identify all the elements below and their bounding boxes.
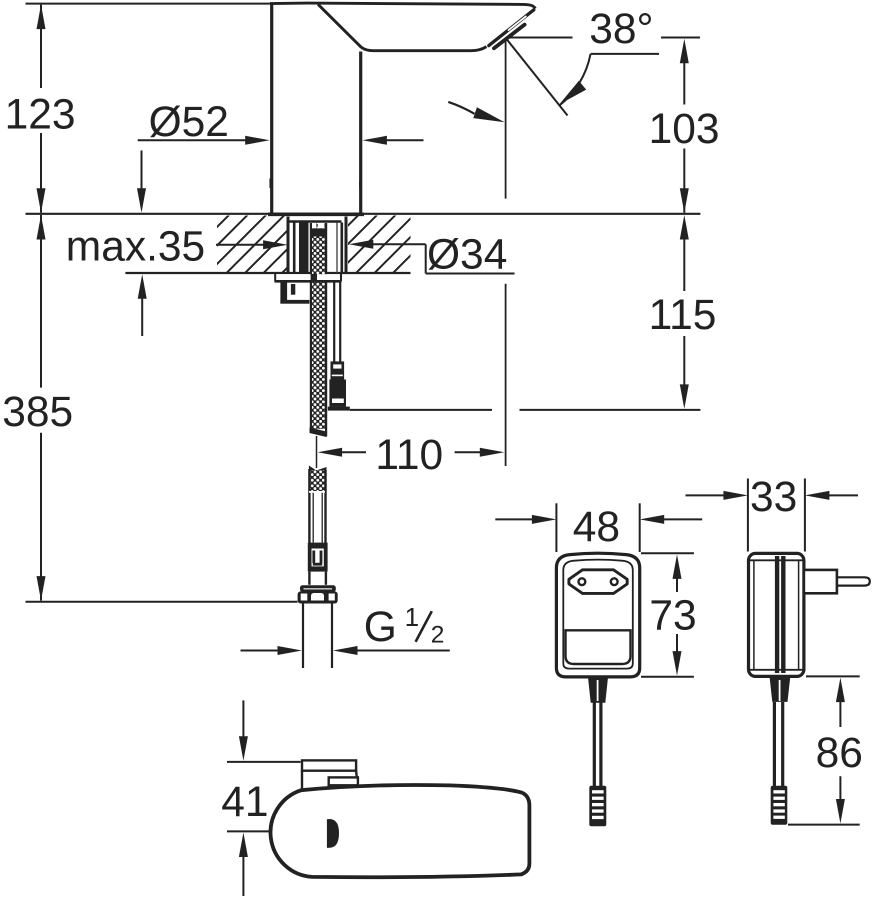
dim 41 bbox=[242, 700, 244, 738]
power supply side view bbox=[749, 553, 804, 676]
hose nut bbox=[300, 585, 336, 592]
svg-text:73: 73 bbox=[649, 593, 696, 640]
cable connector plug bbox=[331, 361, 345, 379]
svg-text:38°: 38° bbox=[589, 6, 653, 53]
dim 73 bbox=[641, 552, 694, 554]
dim 33 bbox=[747, 479, 749, 552]
dim 103 bbox=[683, 62, 685, 105]
power supply front view bbox=[556, 553, 639, 677]
euro plug block bbox=[804, 570, 837, 593]
svg-text:41: 41 bbox=[221, 779, 268, 826]
faucet body outline bbox=[270, 3, 535, 213]
top extension line (123 reference) bbox=[26, 3, 273, 5]
mounting shank through counter bbox=[287, 217, 290, 273]
counter/worktop hatched section bbox=[217, 216, 287, 273]
cable front bbox=[593, 703, 596, 787]
svg-text:103: 103 bbox=[649, 106, 720, 153]
braided hose lower segment bbox=[309, 466, 327, 474]
svg-text:33: 33 bbox=[750, 474, 797, 521]
svg-text:2: 2 bbox=[431, 622, 445, 649]
svg-text:1: 1 bbox=[405, 602, 419, 632]
hose centerline between breaks bbox=[316, 436, 318, 468]
cable gland side bbox=[770, 677, 791, 702]
38deg arc with arrow bbox=[559, 54, 590, 106]
O52 right-side arrow bbox=[362, 136, 387, 145]
water stream axis line bbox=[505, 39, 507, 199]
115 extension line bbox=[350, 409, 492, 411]
dim O34 bbox=[349, 240, 374, 249]
svg-text:115: 115 bbox=[649, 292, 717, 339]
cable connector front bbox=[589, 786, 606, 826]
check valve bbox=[308, 543, 328, 549]
hose break (upper end) bbox=[310, 428, 327, 438]
dim 123 bbox=[40, 5, 42, 88]
385 extension line bbox=[26, 601, 298, 603]
flow direction curved arrow bbox=[448, 102, 474, 114]
faucet base thick segment bbox=[268, 213, 364, 217]
sensor tab bbox=[302, 760, 358, 789]
counter top line bbox=[26, 213, 701, 215]
dim 110 bbox=[341, 451, 366, 453]
38deg reference diagonal bbox=[507, 39, 568, 116]
plug pin bbox=[837, 577, 870, 585]
svg-text:110: 110 bbox=[375, 432, 443, 479]
dim 86 bbox=[806, 675, 860, 677]
dim G1/2 bbox=[241, 650, 280, 652]
svg-text:Ø34: Ø34 bbox=[427, 231, 507, 278]
label area box bbox=[566, 630, 631, 664]
top view: spout head bbox=[271, 785, 530, 877]
svg-text:48: 48 bbox=[573, 504, 620, 551]
cable connector side bbox=[771, 786, 788, 825]
dim 48 bbox=[555, 503, 557, 552]
dim 385 bbox=[40, 215, 42, 388]
dim 115 bbox=[683, 238, 685, 291]
seam nubs on body edges bbox=[269, 179, 271, 189]
svg-text:385: 385 bbox=[2, 389, 73, 436]
svg-text:Ø52: Ø52 bbox=[149, 99, 229, 146]
G1/2 pipe bbox=[302, 604, 304, 669]
mounting washer below counter bbox=[275, 274, 342, 281]
counter bottom line bbox=[125, 272, 410, 274]
svg-text:max.35: max.35 bbox=[66, 223, 205, 270]
sensor window bbox=[327, 819, 339, 848]
svg-text:86: 86 bbox=[816, 730, 863, 777]
svg-text:G: G bbox=[364, 604, 397, 651]
euro socket recess bbox=[569, 570, 627, 594]
aerator (spout outlet cut at 38deg) bbox=[489, 10, 534, 49]
cable gland front bbox=[588, 677, 608, 703]
sensor cable below counter bbox=[333, 282, 335, 362]
svg-text:123: 123 bbox=[5, 92, 76, 139]
38deg annotation lines bbox=[507, 37, 573, 39]
mounting bracket bbox=[280, 282, 287, 304]
cable side bbox=[773, 702, 776, 786]
braided hose upper segment bbox=[311, 223, 327, 429]
